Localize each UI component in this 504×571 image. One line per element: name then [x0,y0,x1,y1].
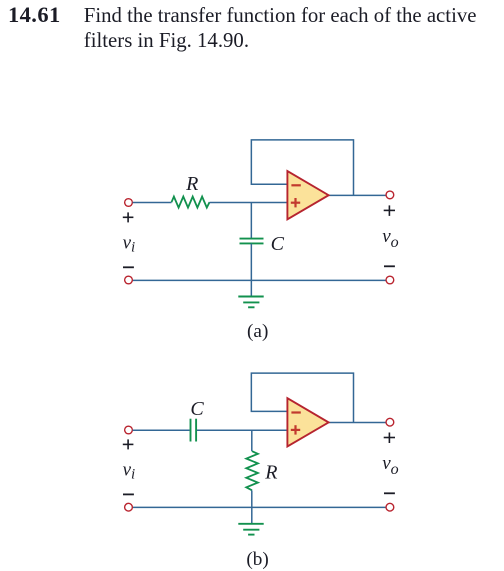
svg-text:vi: vi [123,459,136,482]
label minus sign at input (b) [123,493,134,495]
wire: input to resistor (a) [133,202,172,204]
wire: bottom rail (b) [133,506,386,508]
svg-text:R: R [185,173,198,195]
terminal: output + (a) [386,191,394,199]
svg-text:C: C [271,233,285,255]
svg-text:(a): (a) [247,321,268,342]
label minus sign at input (a) [123,266,134,268]
op-amp U2 (b) [287,398,328,446]
terminal: input - (a) [125,276,133,284]
wire: resistor to op-amp + input (a) [210,202,288,204]
label minus sign at output (b) [384,492,395,494]
wire: input to capacitor (b) [133,429,190,431]
svg-text:(b): (b) [246,549,268,570]
wire: op-amp output to terminal (a) [329,194,386,196]
capacitor C (b) [190,419,192,442]
wire: node down to resistor (b) [251,430,253,451]
svg-text:vo: vo [382,453,398,478]
op-amp U2 plus sign (b) [291,429,300,431]
op-amp U1 minus sign (a) [291,184,300,186]
terminal: output - (b) [386,503,394,511]
resistor R (b) [246,451,258,490]
ground (b) [238,524,263,535]
op-amp U2 minus sign (b) [291,411,300,413]
terminal: input + (b) [125,426,133,434]
label plus sign at input (a) [123,212,134,222]
label plus sign at output (b) [384,433,395,444]
wire: bottom rail (a) [133,279,386,281]
problem number 14.61 [8,2,61,27]
svg-text:C: C [190,398,204,420]
wire: capacitor to op-amp + input (b) [197,429,287,431]
wire: node down to capacitor (a) [250,203,252,239]
op-amp U1 plus sign (a) [291,202,300,204]
feedback wire rectangle (a) [251,140,353,195]
capacitor C (a) [240,238,264,240]
resistor R (a) [172,197,210,208]
svg-text:R: R [264,461,277,483]
terminal: output + (b) [386,418,394,426]
terminal: input + (a) [125,199,133,207]
label minus sign at output (a) [384,265,395,267]
svg-text:vo: vo [382,226,398,251]
ground (a) [238,297,263,308]
terminal: output - (a) [386,276,394,284]
feedback wire rectangle (b) [251,373,353,422]
op-amp U1 (a) [287,171,328,219]
svg-text:vi: vi [123,232,136,255]
wire: op-amp output to terminal (b) [329,421,386,423]
label plus sign at output (a) [384,205,395,216]
problem statement text [84,3,477,54]
wire: capacitor to bottom rail and ground stub (a) [250,244,252,296]
terminal: input - (b) [125,503,133,511]
label plus sign at input (b) [123,439,134,449]
wire: resistor to bottom rail and ground stub (b) [251,490,253,523]
